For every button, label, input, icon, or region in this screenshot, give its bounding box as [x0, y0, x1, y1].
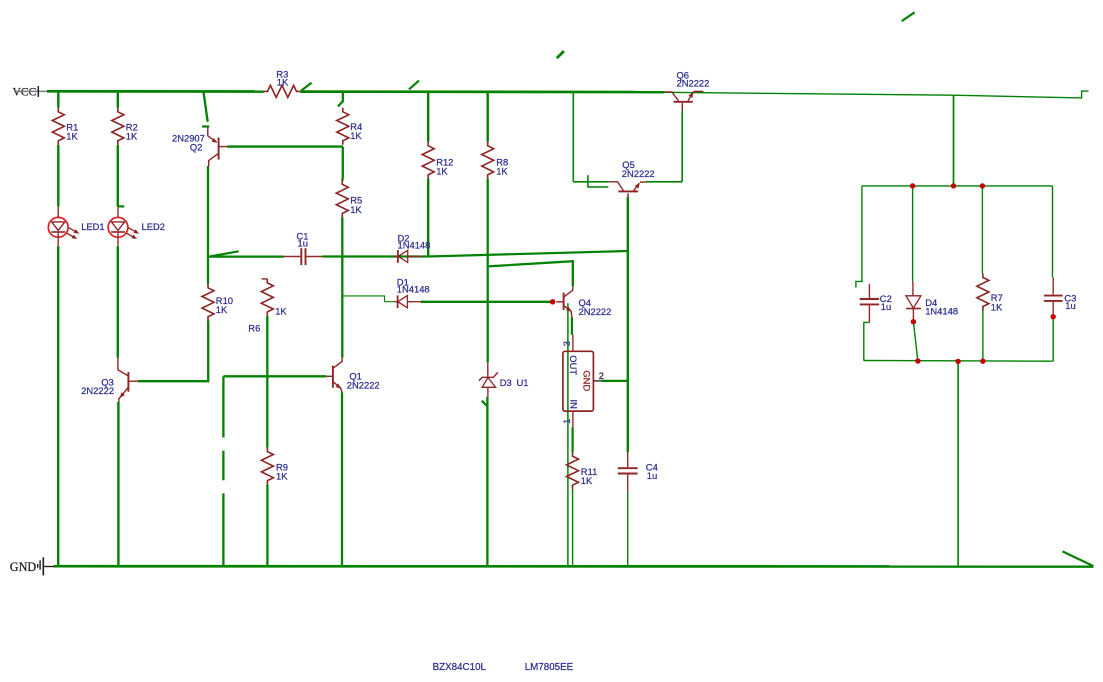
wire VCC rail to Q2 emitter (slanted): [204, 92, 208, 122]
wire VCC top rail (left of R3): [47, 90, 264, 93]
wire R4 top stub from rail (with bend): [338, 92, 343, 107]
wire GND bottom rail: [54, 565, 1094, 568]
resistor R4: [337, 108, 363, 145]
wire R9 bottom to GND rail: [266, 485, 268, 567]
svg-text:1N4148: 1N4148: [397, 284, 430, 295]
diode D4 (1N4148): [906, 282, 958, 321]
wire small tick at D3 bottom: [482, 401, 488, 407]
power symbol GND: [10, 557, 54, 575]
svg-text:IN: IN: [568, 400, 579, 409]
svg-text:D3: D3: [500, 377, 512, 388]
voltage regulator U1 (LM7805): [561, 335, 604, 428]
resistor R10: [202, 284, 233, 321]
wire R6 column down to R9: [266, 316, 268, 448]
zener diode D3: [479, 362, 529, 396]
svg-text:2N2222: 2N2222: [622, 168, 655, 179]
wire Q6 emitter long wire to right (slanted with end jog): [665, 91, 1089, 98]
wire riser down to snubber network: [953, 95, 955, 186]
resistor R3: [264, 68, 301, 97]
wire LED2 to Q3 collector: [117, 246, 119, 358]
resistor R6: [248, 279, 287, 334]
wire R10 bottom to corner and left to Q3 base: [138, 321, 208, 382]
wire Q1 base column segment 2: [222, 451, 224, 481]
wire Q2 collector down to node C1-left: [207, 166, 209, 257]
wire Q6 base column down to Q5: [681, 111, 683, 182]
wire R1 to LED1: [57, 145, 59, 207]
wire snubber top rail: [862, 185, 1053, 187]
svg-text:1K: 1K: [275, 305, 287, 316]
svg-text:1K: 1K: [496, 166, 508, 177]
resistor R7: [977, 274, 1003, 313]
wire LED1 to GND rail: [57, 246, 59, 566]
svg-text:GND: GND: [10, 560, 37, 574]
wire Q5 collector horizontal: [573, 181, 608, 183]
svg-text:1K: 1K: [350, 204, 362, 215]
wire Q4 emitter to U1 pin3: [571, 317, 573, 335]
svg-text:1u: 1u: [881, 301, 891, 312]
wire hook at C2 top: [856, 281, 863, 287]
wire Q5 collector riser from VCC rail: [572, 92, 574, 182]
wire R8 bottom through to D3: [487, 179, 489, 363]
capacitor C2: [860, 284, 892, 323]
wire C4 bottom to GND rail: [627, 491, 629, 566]
svg-text:U1: U1: [517, 377, 529, 388]
wire C2 bottom jog to bottom rail: [864, 322, 870, 360]
resistor R2: [112, 108, 138, 145]
junction node snubber bottom-right: [980, 359, 985, 364]
wire D1 to Q4 base node: [421, 301, 553, 303]
wire D4 bottom to rail (slanted): [913, 322, 917, 361]
wire Q1 emitter to GND rail: [341, 392, 343, 566]
power symbol VCC: [13, 85, 48, 98]
svg-text:1: 1: [561, 419, 572, 424]
wire slanted from R8 column to Q4 collector: [488, 261, 573, 286]
wire thin net from Q1 collector column to D1 (jogged): [342, 296, 394, 302]
svg-text:OUT: OUT: [568, 355, 579, 375]
svg-text:1K: 1K: [216, 304, 228, 315]
wire Q5 emitter to Q6 base column: [646, 181, 682, 183]
wire snubber left leg (C2): [861, 186, 863, 282]
wire Q1 base column segment 3: [222, 493, 224, 566]
diode D2 (1N4148): [394, 232, 430, 262]
wire R12 bottom to C1 net: [427, 179, 429, 257]
wire thin net from Q4 emitter down through U1 to GND rail: [567, 303, 569, 566]
wire D4 top leg: [912, 186, 914, 282]
svg-text:2N2222: 2N2222: [677, 77, 710, 88]
svg-text:1u: 1u: [1065, 300, 1075, 311]
wire Q1 base to left column: [223, 375, 326, 377]
resistor R11: [567, 452, 598, 489]
wire Q5 base column down through U1 pin2 to C4: [627, 197, 629, 452]
svg-text:GND: GND: [582, 370, 593, 391]
svg-text:1K: 1K: [581, 475, 593, 486]
wire C1 horizontal net (left half): [208, 255, 284, 257]
wire R1 column top stub: [57, 91, 59, 108]
LED LED1: [48, 207, 104, 247]
wire Q1 base column segment 1: [222, 376, 224, 437]
wire U1 pin1 to R11 top: [571, 427, 573, 452]
wire R7 top leg: [981, 186, 983, 274]
wire D3 to GND rail: [486, 397, 488, 567]
svg-text:1K: 1K: [126, 131, 138, 142]
transistor Q5 (NPN 2N2222, rotated): [609, 159, 655, 197]
svg-text:3: 3: [561, 341, 572, 346]
wire node to R10 top: [207, 257, 209, 284]
wire Q3 emitter to GND rail: [117, 402, 119, 567]
wire stub tick above LED2: [118, 205, 125, 207]
svg-text:1K: 1K: [991, 302, 1003, 313]
junction node D4 bottom: [911, 319, 916, 324]
wire R2 to LED2: [117, 145, 119, 207]
svg-text:1K: 1K: [276, 471, 288, 482]
wire C3 top leg (right corner): [1052, 186, 1054, 278]
wire VCC top rail (right of R3): [300, 90, 664, 93]
capacitor C3: [1044, 277, 1076, 315]
svg-text:LED1: LED1: [81, 221, 104, 232]
wire R8 top stub: [487, 92, 489, 142]
svg-text:1K: 1K: [350, 130, 362, 141]
svg-text:R6: R6: [248, 323, 260, 334]
wire stray slash upper middle: [557, 51, 564, 58]
wire stray slash left of R12 top: [409, 81, 419, 90]
wire stray slash top right: [902, 12, 915, 21]
wire Q2 base to R4 bottom node: [227, 145, 343, 147]
svg-text:Q2: Q2: [190, 142, 203, 153]
svg-text:2N2222: 2N2222: [81, 385, 114, 396]
resistor R12: [422, 142, 453, 179]
svg-text:2N2222: 2N2222: [579, 306, 612, 317]
svg-text:1u: 1u: [298, 237, 308, 248]
wire stray slash right of R3: [301, 83, 311, 91]
wire C3 bottom to rail corner: [1052, 317, 1054, 362]
wire R11 bottom to GND rail: [572, 489, 574, 566]
resistor R1: [52, 108, 78, 145]
wire Q1 collector up to C1 net: [341, 257, 343, 358]
transistor Q2 (PNP 2N2907): [172, 127, 227, 166]
svg-text:1N4148: 1N4148: [398, 239, 431, 250]
wire C1 to D2 and R12 node: [322, 255, 428, 257]
wire R4 bottom node down to R5 top: [341, 147, 344, 181]
junction node snubber top-right: [980, 183, 985, 188]
wire U1 pin2 to Q5 column: [602, 380, 628, 382]
svg-text:LM7805EE: LM7805EE: [525, 662, 574, 673]
wire slash tick at node C1-left: [208, 251, 239, 256]
LED LED2: [108, 207, 165, 247]
svg-text:BZX84C10L: BZX84C10L: [433, 662, 487, 673]
transistor Q4 (NPN 2N2222): [556, 286, 611, 317]
capacitor C1: [284, 230, 323, 265]
svg-text:1K: 1K: [277, 76, 289, 87]
svg-text:LED2: LED2: [142, 221, 165, 232]
svg-text:1K: 1K: [436, 166, 448, 177]
wire R5 bottom to node on C1 wire: [341, 217, 343, 256]
capacitor C4: [618, 452, 658, 491]
diode D1 (1N4148): [394, 276, 429, 308]
wire snubber bottom rail: [864, 360, 1053, 363]
resistor R5: [336, 180, 362, 217]
svg-text:1u: 1u: [647, 470, 657, 481]
transistor Q6 (NPN 2N2222, rotated): [665, 70, 710, 111]
junction node snubber bottom-middle: [955, 359, 960, 364]
wire GND rail end flick (bottom right): [1063, 551, 1094, 566]
junction node snubber top-middle: [951, 183, 956, 188]
transistor Q1 (NPN 2N2222): [326, 358, 379, 393]
svg-text:1K: 1K: [66, 131, 78, 142]
junction node at Q4 base: [550, 299, 555, 304]
resistor R8: [482, 142, 509, 179]
wire R12 top stub: [427, 92, 429, 142]
wire R2 column top stub: [117, 91, 119, 108]
junction node snubber bottom-left: [915, 358, 920, 363]
wire R7 bottom leg: [982, 311, 984, 362]
junction node C3 bottom: [1051, 314, 1056, 319]
junction node snubber top-left: [910, 183, 915, 188]
wire snubber center stub to GND rail: [957, 361, 959, 566]
wire slanted from R12 node to Q5 column: [428, 251, 627, 257]
svg-text:2: 2: [599, 370, 604, 381]
svg-text:1N4148: 1N4148: [925, 306, 958, 317]
transistor Q3 (NPN 2N2222, mirrored): [81, 358, 138, 402]
wire tick at Q2 emitter: [202, 125, 209, 127]
wire L-shaped stub near Q5: [588, 175, 608, 187]
resistor R9: [261, 448, 288, 485]
svg-text:2N2222: 2N2222: [347, 380, 380, 391]
